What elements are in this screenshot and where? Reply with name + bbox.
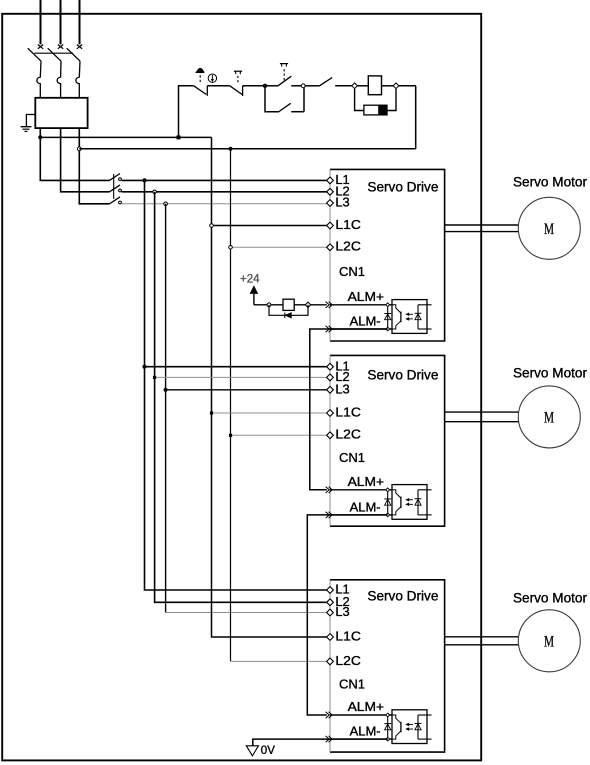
svg-text:ALM+: ALM+ <box>348 474 385 489</box>
node control tap phase1 <box>38 135 42 139</box>
svg-text:ALM-: ALM- <box>350 724 381 739</box>
alarm output wire ALM+ into optocoupler <box>330 489 392 491</box>
servo motor M1 circle <box>518 197 580 259</box>
terminal L1C drive 1 <box>327 222 334 229</box>
optocoupler output stubs <box>418 489 432 491</box>
breaker pole blade <box>48 48 61 61</box>
protection zener diode across ALM <box>387 715 389 739</box>
optocoupler output stubs <box>418 714 432 716</box>
terminal L3 drive 3 <box>327 609 334 616</box>
alarm output wire ALM+ into optocoupler <box>330 304 392 306</box>
optocoupler light arrows <box>407 723 413 725</box>
svg-text:Servo Drive: Servo Drive <box>367 367 438 382</box>
optocoupler LED diode <box>417 715 419 739</box>
servo motor M2 circle <box>518 386 580 448</box>
svg-text:ALM-: ALM- <box>350 500 381 515</box>
servo motor M3 circle <box>518 610 580 672</box>
wire L1C rail vertical <box>212 137 327 637</box>
svg-text:ALM+: ALM+ <box>348 699 385 714</box>
phase S incoming line <box>60 0 62 44</box>
contactor linkage bar <box>113 174 115 199</box>
terminal ALM- drive 2 chevron <box>326 512 330 518</box>
wire drive3 L2C feed <box>231 660 327 662</box>
terminal L1 drive 1 <box>327 177 334 184</box>
wire control feed A y137 <box>40 136 211 138</box>
svg-text:CN1: CN1 <box>339 677 365 692</box>
terminal ALM+ drive 2 chevron <box>326 487 330 493</box>
node coil right diamond <box>393 83 399 89</box>
node coil left diamond <box>352 83 358 89</box>
alarm output wire ALM- from optocoupler <box>330 738 392 740</box>
svg-text:Servo Motor: Servo Motor <box>513 174 588 189</box>
wire drive3 L3 feed <box>166 612 327 614</box>
contactor coil KM <box>357 85 368 87</box>
wire coil to return riser <box>399 85 416 87</box>
contactor pole 2 <box>110 185 121 192</box>
terminal L2 drive 2 <box>327 374 334 381</box>
stop pushbutton SB2 NC contact <box>230 86 242 95</box>
svg-text:CN1: CN1 <box>339 450 365 465</box>
optocoupler phototransistor <box>392 715 401 723</box>
wire control loop left riser <box>179 86 194 138</box>
svg-text:CN1: CN1 <box>339 264 365 279</box>
wire drive1 L1C feed <box>212 225 327 227</box>
+24 power flag triangle <box>250 285 259 294</box>
breaker linkage bar <box>34 52 73 54</box>
optocoupler U isolator box <box>392 300 427 334</box>
wire control feed B y149 <box>79 148 415 150</box>
alarm output wire ALM- from optocoupler <box>330 514 392 516</box>
svg-text:ALM-: ALM- <box>350 314 381 329</box>
svg-text:Servo Drive: Servo Drive <box>367 180 438 195</box>
breaker pole lower lead with thermal hook <box>76 61 80 98</box>
terminal L1 drive 2 <box>327 363 334 370</box>
relay contact NO in series <box>305 85 319 87</box>
optocoupler U isolator box <box>392 710 427 744</box>
node L2 rail tap <box>153 190 157 194</box>
contactor KM seal-in NO contact branch <box>265 86 278 112</box>
wire +24 to ALM+ <box>254 304 327 306</box>
terminal L3 drive 1 <box>327 200 334 207</box>
node control tap phase3 <box>77 147 81 151</box>
svg-text:+24: +24 <box>240 274 260 286</box>
terminal L2 drive 1 <box>327 188 334 195</box>
optocoupler light arrows <box>407 313 413 315</box>
terminal ALM- drive 3 chevron <box>326 736 330 742</box>
noise filter box <box>35 98 87 128</box>
wire drive1 L2C feed <box>231 246 327 248</box>
breaker terminal X mark <box>77 45 82 49</box>
optocoupler phototransistor <box>392 305 401 313</box>
wire drive2 L2C feed <box>231 434 327 436</box>
svg-text:L3: L3 <box>335 196 349 210</box>
wire drive3 ALM- to 0V <box>253 739 388 746</box>
svg-text:ALM+: ALM+ <box>348 289 385 304</box>
svg-text:M: M <box>544 633 554 650</box>
wire drive2 ALM- to drive3 ALM+ <box>307 515 387 715</box>
surge suppressor branch <box>355 89 364 111</box>
optocoupler U isolator box <box>392 485 427 520</box>
optocoupler output stubs <box>418 304 432 306</box>
current limit resistor R <box>283 299 294 310</box>
terminal ALM- drive 1 chevron <box>326 326 330 332</box>
contactor pole 3 <box>110 197 121 204</box>
wire drive2 L1 feed <box>145 366 327 368</box>
terminal L2C drive 1 <box>327 244 334 251</box>
freewheel diode branch <box>269 305 308 316</box>
optocoupler LED diode <box>417 490 419 515</box>
servo drive U2 box <box>330 355 445 526</box>
motor power cable drive 3 <box>445 636 519 638</box>
terminal L2 drive 3 <box>327 599 334 606</box>
terminal L1C drive 2 <box>327 410 334 417</box>
svg-text:L1C: L1C <box>335 218 361 232</box>
svg-text:L1C: L1C <box>335 405 361 419</box>
node seal-in rejoin <box>301 84 305 88</box>
terminal L2C drive 3 <box>327 658 334 665</box>
svg-text:L2C: L2C <box>335 428 361 442</box>
wire L1 rail vertical <box>145 180 327 590</box>
wire drive1 ALM- to drive2 ALM+ <box>310 329 388 490</box>
svg-text:L2C: L2C <box>335 654 361 668</box>
svg-text:M: M <box>544 410 554 427</box>
emergency stop pushbutton SB1 NC contact <box>194 86 207 95</box>
breaker pole lower lead with thermal hook <box>37 61 41 98</box>
start pushbutton SB3 NO contact <box>265 85 277 87</box>
optocoupler LED diode <box>417 305 419 329</box>
0V ground flag triangle <box>246 746 258 756</box>
alarm output wire ALM- from optocoupler <box>330 328 392 330</box>
node L3 rail tap <box>164 202 168 206</box>
wire phase3 filter to contactor <box>79 128 109 204</box>
wire L2C rail vertical <box>230 149 232 662</box>
breaker pole blade <box>28 48 41 61</box>
wire phase2 filter to contactor <box>61 128 110 192</box>
servo drive U3 box <box>330 580 445 752</box>
node start branch junction <box>263 84 267 88</box>
svg-text:L2C: L2C <box>335 240 361 254</box>
wire drive2 L3 feed <box>166 389 327 391</box>
wire +24 stem <box>253 294 255 305</box>
node resistor branch left <box>267 303 271 307</box>
svg-text:Servo Drive: Servo Drive <box>367 589 438 604</box>
svg-text:L3: L3 <box>335 382 349 396</box>
terminal ALM+ drive 1 chevron <box>326 302 330 308</box>
ground symbol <box>26 115 35 127</box>
wire L2 rail vertical <box>155 192 327 603</box>
wire control loop right return riser <box>415 86 417 149</box>
protection zener diode across ALM <box>387 490 389 515</box>
terminal ALM+ drive 3 chevron <box>326 712 330 718</box>
node L1 rail tap <box>142 178 146 182</box>
wire L3 rail vertical <box>165 204 167 613</box>
node resistor branch right diamond <box>305 302 310 307</box>
optocoupler phototransistor <box>392 490 401 498</box>
node control branch junction <box>177 135 181 139</box>
breaker pole blade <box>67 48 80 61</box>
node L2C rail tap <box>228 147 232 151</box>
breaker pole lower lead with thermal hook <box>57 61 61 98</box>
svg-text:M: M <box>544 221 554 238</box>
enclosure border frame <box>2 14 481 761</box>
optocoupler light arrows <box>407 499 413 501</box>
emergency stop turn-to-release symbol <box>208 74 216 82</box>
protection zener diode across ALM <box>387 305 389 329</box>
motor power cable drive 1 <box>445 224 519 226</box>
phase T incoming line <box>79 0 81 44</box>
breaker terminal X mark <box>58 45 63 49</box>
svg-text:Servo Motor: Servo Motor <box>513 365 588 380</box>
svg-text:0V: 0V <box>261 745 275 757</box>
wire drive2 L1C feed <box>212 412 327 414</box>
alarm output wire ALM+ into optocoupler <box>330 714 392 716</box>
terminal L3 drive 2 <box>327 386 334 393</box>
terminal L1C drive 3 <box>327 634 334 641</box>
terminal L1 drive 3 <box>327 587 334 594</box>
wire phase1 filter to contactor <box>40 128 109 180</box>
terminal L2C drive 2 <box>327 432 334 439</box>
servo drive U1 box <box>330 169 445 341</box>
motor power cable drive 2 <box>445 411 519 413</box>
contactor pole 1 <box>110 174 121 181</box>
wire drive2 L2 feed <box>155 376 327 378</box>
phase R incoming line <box>40 0 42 44</box>
breaker terminal X mark <box>38 45 43 49</box>
svg-text:L1C: L1C <box>335 629 361 643</box>
svg-text:Servo Motor: Servo Motor <box>513 591 588 606</box>
svg-text:L3: L3 <box>335 605 349 619</box>
